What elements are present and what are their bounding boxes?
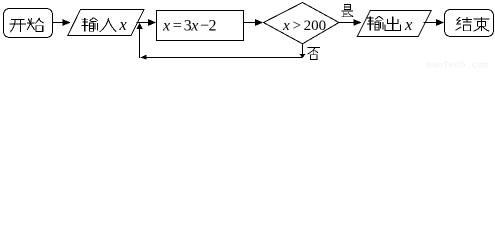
svg-text:x>200: x>200: [282, 18, 326, 34]
label 输出 x: [367, 15, 413, 34]
label 否 (no): [307, 48, 320, 60]
terminal box 结束 (end): [445, 10, 494, 37]
label 是 (yes): [341, 4, 353, 16]
parallelogram 输入x (input): [68, 10, 144, 36]
arrow: output to end: [424, 19, 445, 26]
parallelogram 输出x (output): [357, 11, 431, 37]
arrow: input to process (with loop junction): [137, 19, 157, 26]
svg-text:x: x: [404, 15, 413, 34]
label 输入 x: [81, 15, 127, 34]
arrow: start to input: [53, 19, 71, 26]
label 开始: [9, 18, 43, 32]
svg-text:manfen5.com: manfen5.com: [426, 59, 489, 69]
process box x=3x-2: [157, 11, 244, 41]
loop: decision bottom down arrow: [299, 44, 305, 58]
svg-text:x: x: [118, 15, 127, 34]
arrow: process to decision: [244, 19, 264, 26]
loop: bottom horizontal wire: [141, 57, 303, 59]
arrow: decision to output: [339, 19, 362, 26]
terminal box 开始 (start): [4, 9, 53, 38]
decision diamond x>200: [264, 3, 340, 44]
loop: left corner arrowhead: [140, 55, 146, 60]
loop junction arrowhead (up): [136, 23, 142, 58]
label 结束: [456, 17, 490, 31]
